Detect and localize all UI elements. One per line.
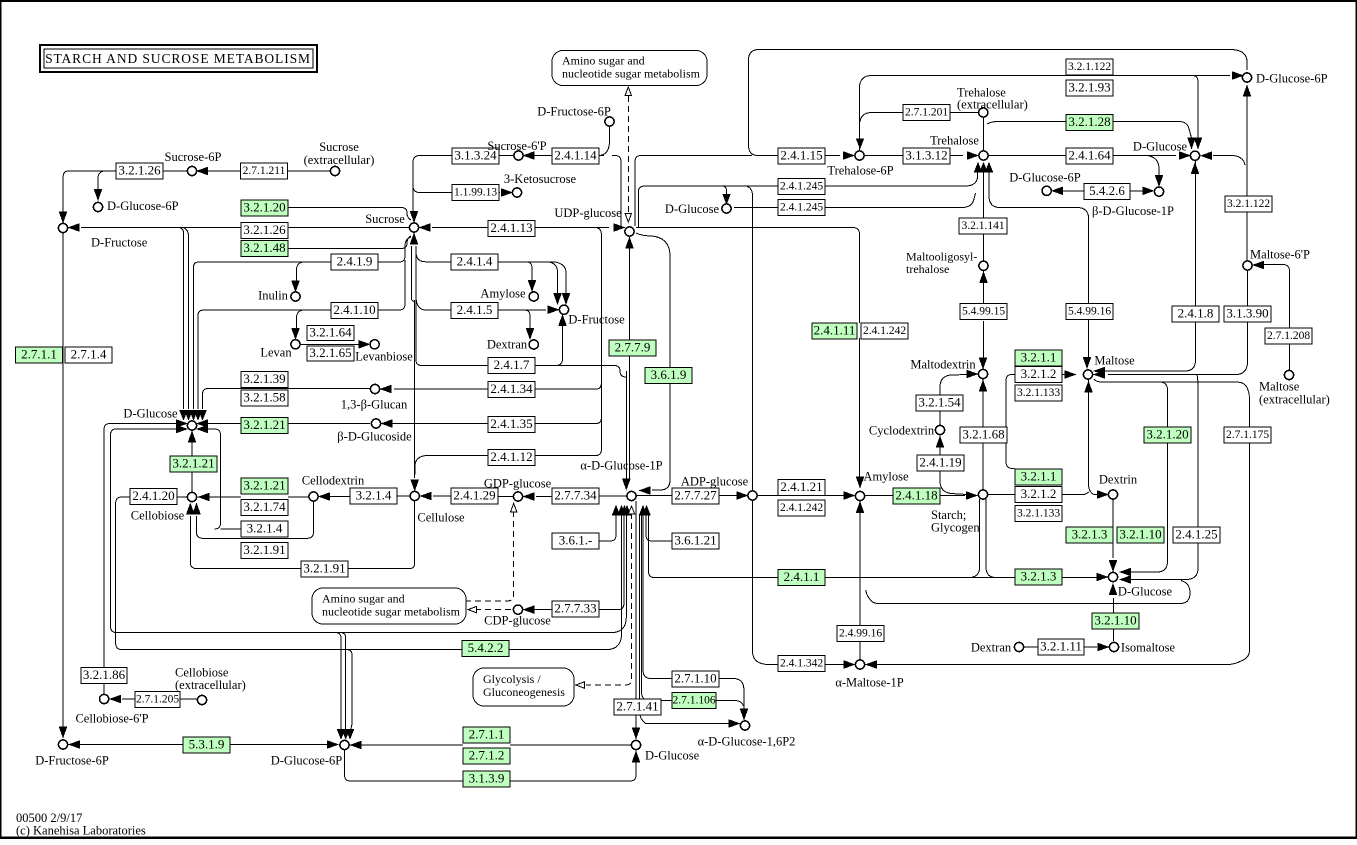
label amino sugar text mid	[322, 592, 461, 619]
arrowhead into D-Fructose from top	[59, 212, 66, 222]
arrowhead into Maltose-6'P	[1254, 261, 1264, 268]
enzyme box 2.4.99.16	[837, 626, 884, 642]
svg-text:5.4.2.6: 5.4.2.6	[1089, 183, 1125, 198]
wire v x635 UDP right	[635, 156, 752, 227]
enzyme box 2.7.1.205	[135, 692, 180, 708]
enzyme box 3.2.1.91 a	[241, 542, 288, 559]
svg-text:α-D-Glucose-1P: α-D-Glucose-1P	[580, 459, 662, 473]
svg-text:3.2.1.10: 3.2.1.10	[1094, 612, 1136, 627]
wire h 2.7.1.205 row y699	[122, 698, 197, 700]
svg-text:3.2.1.39: 3.2.1.39	[243, 371, 285, 386]
wire v amylose2 to a-maltose-1P	[859, 514, 861, 659]
arrowhead into GDP-glucose	[524, 493, 534, 500]
wire h maltose row y374.5	[1010, 371, 1236, 375]
wire h 2.4.1.245 row2 y207.5	[734, 193, 976, 208]
arrowhead into Maltodextrin bottom	[979, 381, 986, 391]
svg-text:3.2.1.58: 3.2.1.58	[243, 389, 285, 404]
svg-text:D-Glucose: D-Glucose	[123, 407, 178, 421]
metabolite node D-Glucose right	[1190, 151, 1199, 160]
metabolite node Sucrose-6'P	[514, 151, 523, 160]
svg-text:3.2.1.141: 3.2.1.141	[961, 220, 1004, 232]
wire h 2.4.1.12 y455.5	[426, 449, 601, 456]
arrowhead into Maltose right2	[1095, 371, 1105, 378]
wire h 3.2.1.48 right to sucrose bottom	[288, 236, 411, 249]
wire v trehalose-6P up x859.5 and y75.5 line	[860, 76, 1231, 151]
svg-text:2.4.1.25: 2.4.1.25	[1175, 526, 1217, 541]
arrowhead into D-Glucose-6P BL top2	[342, 730, 349, 739]
enzyme box 3.6.1.21	[672, 532, 719, 549]
svg-text:Sucrose: Sucrose	[365, 212, 405, 226]
wire curve 2.4.1.14 up to D-Fructose-6P	[598, 127, 610, 156]
svg-text:3.2.1.11: 3.2.1.11	[1040, 638, 1082, 653]
enzyme box 2.7.1.175	[1224, 427, 1271, 443]
svg-text:ADP-glucose: ADP-glucose	[681, 475, 749, 489]
arrowhead into D-Fructose-6P bottom top	[59, 727, 66, 737]
wire h 2.4.1.9 row y262	[199, 261, 399, 263]
arrowhead into D-Glucose hubR bottom	[1109, 585, 1116, 595]
svg-text:3.2.1.68: 3.2.1.68	[962, 426, 1004, 441]
wire maltose right curve from x1247.5	[1236, 270, 1248, 375]
svg-text:2.7.1.201: 2.7.1.201	[905, 107, 948, 119]
arrowhead open triangle above UDP-glucose	[625, 214, 631, 223]
label Dextran top	[487, 338, 528, 352]
wire v cellobiose-6P col x104.1	[103, 667, 105, 694]
label Sucrose	[365, 212, 405, 226]
svg-text:2.4.1.245: 2.4.1.245	[780, 181, 823, 193]
svg-text:Sucrose-6P: Sucrose-6P	[165, 150, 222, 164]
svg-text:Maltose: Maltose	[1094, 354, 1135, 368]
wire h sucrose main y227.5	[81, 227, 853, 229]
arrowhead into D-Glucose top-mid	[723, 195, 730, 204]
wire hub left curve x110.5 down to y632.5	[111, 429, 177, 633]
arrowhead into D-Glucose hub right2	[198, 425, 208, 432]
svg-text:2.7.7.9: 2.7.7.9	[615, 339, 651, 354]
wire branch down to Dextran1	[524, 310, 530, 330]
enzyme box 2.7.7.34	[552, 487, 599, 504]
arrowhead into Cellobiose-6'P	[111, 695, 121, 702]
label Cyclodextrin	[869, 424, 935, 438]
arrowhead into alpha-D-Glucose-1P top	[623, 479, 630, 489]
label Amylose top	[480, 287, 526, 301]
arrowhead into Cyclodextrin	[936, 437, 943, 447]
arrowhead into D-Fructose mid top1	[554, 294, 561, 304]
wire h 1,3-b-glucan row y388.5	[203, 389, 371, 395]
enzyme box 3.2.1.133 a	[1015, 385, 1062, 401]
arrowhead into D-Glucose hubR top	[1109, 561, 1116, 571]
svg-text:2.4.1.4: 2.4.1.4	[457, 253, 493, 268]
wire v x636 through 2.7.1.41	[635, 501, 637, 729]
enzyme box 2.4.1.242 a	[861, 323, 908, 339]
wire trehalose arrow3 to 5.4.99.16 col	[989, 172, 1089, 358]
wire branch down to Amylose1	[526, 262, 532, 281]
arrowhead into D-Glucose-6P BL right side	[351, 741, 361, 748]
wire curve y227.5 down into left bundle	[178, 228, 184, 410]
arrowhead into D-Fructose mid top2	[562, 294, 569, 304]
wire h 1.1.99.13 row y192.5	[420, 192, 500, 194]
enzyme box 3.2.1.20 a	[241, 199, 288, 216]
metabolite node D-Glucose-6P top-right	[1242, 73, 1251, 82]
metabolite node ADP-glucose	[748, 491, 757, 500]
svg-text:2.4.1.19: 2.4.1.19	[919, 454, 961, 469]
svg-text:3.2.1.48: 3.2.1.48	[243, 240, 285, 255]
metabolite node Starch; Glycogen	[978, 490, 987, 499]
svg-text:2.7.1.175: 2.7.1.175	[1226, 429, 1269, 441]
svg-text:(extracellular): (extracellular)	[304, 153, 375, 167]
enzyme box 2.4.1.15	[778, 147, 825, 164]
enzyme box 2.4.1.245 b	[778, 200, 825, 216]
label D-Fructose mid	[568, 313, 625, 327]
svg-text:2.4.1.1: 2.4.1.1	[784, 569, 820, 584]
wire v bundle x202.5 from glucan row	[202, 393, 204, 409]
wire h 2.4.1.18 row y495	[637, 495, 965, 497]
arrowhead into Starch	[967, 492, 977, 499]
enzyme box 2.4.1.34	[488, 381, 535, 398]
metabolite node Cellodextrin	[309, 492, 318, 501]
arrowhead into D-Glucose hubR right1	[1121, 568, 1131, 575]
svg-text:(extracellular): (extracellular)	[1259, 393, 1330, 407]
svg-text:3.2.1.74: 3.2.1.74	[243, 499, 286, 514]
pathway link box Amino sugar and nucleotide sugar metabolism (top)	[552, 51, 707, 86]
svg-text:(extracellular): (extracellular)	[175, 678, 246, 692]
enzyme box 3.2.1.2 b	[1015, 486, 1062, 503]
svg-text:nucleotide sugar metabolism: nucleotide sugar metabolism	[562, 67, 701, 81]
wire h 3.2.1.28 row y121.6	[987, 122, 1192, 138]
svg-text:3.2.1.21: 3.2.1.21	[243, 477, 285, 492]
svg-text:Dextran: Dextran	[487, 338, 528, 352]
svg-text:D-Glucose-6P: D-Glucose-6P	[1009, 171, 1081, 185]
wire curve 2.4.1.9 up to sucrose	[399, 237, 411, 262]
wire branch down to D-Glucose-6P TL	[98, 171, 104, 190]
arrowhead into ADP-glucose	[737, 492, 747, 499]
wire big loop 2.4.1.15 left to D-Glucose-6P TR	[749, 50, 1248, 156]
metabolite node Isomaltose	[1109, 642, 1118, 651]
enzyme box 2.7.1.1 b	[463, 726, 510, 743]
wire curve 2.7.1.201 left down	[860, 113, 903, 123]
arrowhead into D-Glucose hub right1	[198, 420, 208, 427]
svg-text:3.2.1.86: 3.2.1.86	[83, 667, 126, 682]
arrowhead into Maltodextrin left	[967, 370, 977, 377]
svg-text:2.7.1.41: 2.7.1.41	[616, 698, 658, 713]
svg-text:3.2.1.3: 3.2.1.3	[1021, 568, 1057, 583]
enzyme box 2.4.1.245 a	[778, 179, 825, 195]
enzyme box 3.2.1.48	[241, 240, 288, 257]
wire v x639.5 to a-D-glucose-1,6P2	[640, 514, 730, 724]
enzyme box 3.2.1.3 a	[1066, 526, 1113, 543]
arrowhead into D-Glucose bottom top	[632, 728, 639, 738]
wire hub right y429 to 3.2.1.4 row	[198, 429, 241, 529]
label alpha-D-Glucose-1,6P2	[698, 735, 796, 749]
svg-text:Maltodextrin: Maltodextrin	[910, 358, 976, 372]
svg-text:Sucrose-6'P: Sucrose-6'P	[487, 139, 546, 153]
arrowhead into D-Glucose R top1	[1188, 138, 1195, 148]
svg-text:3.1.3.9: 3.1.3.9	[469, 770, 505, 785]
svg-text:3.2.1.4: 3.2.1.4	[356, 487, 392, 502]
label Trehalose (extracellular)	[957, 86, 1028, 112]
label Cellulose	[417, 511, 465, 525]
enzyme box 5.4.99.16	[1066, 304, 1113, 320]
wire h D-Fructose-6P row y744.5	[69, 744, 331, 746]
svg-text:D-Fructose-6P: D-Fructose-6P	[537, 105, 611, 119]
svg-text:3.6.1.21: 3.6.1.21	[674, 532, 716, 547]
arrowhead into Maltooligosyltrehalose	[980, 273, 987, 283]
wire v x621 UDP left	[612, 156, 621, 227]
label Inulin	[258, 289, 289, 303]
label Levan	[260, 346, 292, 360]
svg-text:2.7.1.211: 2.7.1.211	[243, 165, 286, 177]
svg-text:3.1.3.90: 3.1.3.90	[1226, 305, 1268, 320]
svg-text:3.2.1.26: 3.2.1.26	[243, 222, 286, 237]
arrowhead into D-Glucose hub left1	[177, 420, 187, 427]
metabolite node Maltooligosyltrehalose	[979, 261, 988, 270]
svg-text:Amylose: Amylose	[863, 470, 909, 484]
wire v x1195.5 D-Glucose R down 2.4.1.8	[1176, 161, 1196, 371]
wire v bundle x193.5 from 2.4.1.9 row	[194, 262, 200, 409]
metabolite node D-Fructose left	[58, 223, 67, 232]
wire h isomaltose row y647	[1024, 646, 1097, 648]
enzyme box 3.2.1.74	[241, 499, 288, 516]
arrowhead into D-Glucose R right	[1202, 152, 1212, 159]
arrowhead into D-Glucose R top2	[1194, 138, 1201, 148]
svg-text:3.2.1.122: 3.2.1.122	[1227, 198, 1270, 210]
arrowhead open triangle below GDP-glucose	[511, 504, 517, 513]
wire h 2.4.1.245 row1 y186	[638, 172, 977, 227]
label alpha-D-Glucose-1P	[580, 459, 662, 473]
wire curve left of 3.2.1.26 down to D-Fructose	[63, 171, 68, 214]
arrowhead open triangle into amino box mid	[468, 606, 477, 612]
label D-Glucose top-mid	[665, 202, 720, 216]
arrowhead into D-Glucose-6P mid	[1053, 187, 1063, 194]
enzyme box 2.4.1.1	[778, 569, 825, 586]
arrowhead bundle up arrow x626.3	[623, 506, 630, 515]
label UDP-glucose	[554, 206, 622, 220]
svg-text:3.2.1.64: 3.2.1.64	[309, 324, 352, 339]
arrowhead into Maltose bottom	[1085, 382, 1092, 392]
arrowhead into D-Fructose mid left	[548, 306, 558, 313]
svg-text:2.7.1.4: 2.7.1.4	[71, 346, 107, 361]
enzyme box 2.4.1.18	[893, 487, 940, 504]
svg-text:2.4.1.245: 2.4.1.245	[780, 202, 823, 214]
wire v x1198 2.4.1.25 hub feed	[1126, 375, 1198, 580]
label beta-D-Glucose-1P	[1092, 204, 1174, 218]
svg-text:3.2.1.28: 3.2.1.28	[1068, 114, 1110, 129]
arrowhead into Amylose mid bottom	[856, 503, 863, 513]
svg-text:Amino sugar and: Amino sugar and	[562, 54, 645, 68]
enzyme box 3.2.1.39	[241, 371, 288, 388]
svg-text:Gluconeogenesis: Gluconeogenesis	[483, 685, 565, 699]
svg-text:3.2.1.4: 3.2.1.4	[247, 520, 283, 535]
wire bundle x646 to 3.6.1.21	[646, 514, 672, 541]
wire dashed GDP down	[466, 511, 514, 601]
wire h alpha-maltose-1P left segments	[768, 664, 845, 666]
wire bundle x643 to 2.7.1.10 row	[643, 514, 672, 679]
enzyme box 3.1.3.9	[463, 770, 510, 787]
wire v dextrin to D-Glucose R hub	[1112, 499, 1114, 558]
svg-text:Maltose-6'P: Maltose-6'P	[1250, 248, 1310, 262]
arrowhead into Levanbiose	[359, 341, 369, 348]
svg-text:2.4.1.18: 2.4.1.18	[895, 487, 937, 502]
metabolite node Maltose	[1083, 370, 1092, 379]
arrowhead into D-Glucose hub top 1	[180, 411, 187, 420]
metabolite node D-Fructose-6P bottom	[58, 740, 67, 749]
arrowhead into D-Glucose-6P TL	[94, 190, 101, 200]
enzyme box 2.4.1.7	[488, 357, 535, 374]
arrowhead into beta-D-Glucoside	[382, 420, 392, 427]
label D-Glucose right hub	[1118, 585, 1173, 599]
svg-text:3.2.1.91: 3.2.1.91	[303, 560, 345, 575]
wire dashed bundle to glycolysis	[586, 513, 632, 685]
wire bundle x624 to 2.7.7.33	[598, 514, 624, 610]
arrowhead into D-Glucose R left	[1180, 152, 1190, 159]
label 1,3-beta-Glucan	[341, 398, 408, 412]
wire bundle x621.5 (to y649.5)	[621, 514, 623, 633]
wire dashed UDP to amino sugar box	[627, 96, 629, 213]
arrowhead into Cellulose left	[421, 492, 431, 499]
enzyme box 2.7.7.27	[672, 487, 719, 504]
enzyme box 3.2.1.4 a	[241, 520, 288, 537]
wire h cellobiose row y497	[177, 495, 410, 498]
svg-text:3.2.1.122: 3.2.1.122	[1068, 61, 1111, 73]
arrowhead into alpha-Maltose-1P right	[867, 661, 877, 668]
svg-text:3.2.1.133: 3.2.1.133	[1017, 508, 1060, 520]
svg-text:5.4.99.16: 5.4.99.16	[1068, 306, 1111, 318]
metabolite node 1,3-beta-Glucan	[370, 384, 379, 393]
svg-text:3.2.1.133: 3.2.1.133	[1017, 387, 1060, 399]
arrowhead into D-Glucose hubR right2	[1121, 576, 1131, 583]
wire h 3.2.1.20 right to sucrose top	[288, 208, 411, 221]
svg-text:D-Glucose: D-Glucose	[1118, 585, 1173, 599]
svg-text:5.4.2.2: 5.4.2.2	[468, 640, 504, 655]
svg-text:D-Glucose-6P: D-Glucose-6P	[271, 754, 343, 768]
svg-text:2.4.1.35: 2.4.1.35	[490, 416, 532, 431]
wire v cellulose down	[410, 501, 415, 569]
enzyme box 2.4.1.4	[451, 253, 498, 270]
wire branch y649.5 down to DG6P-L	[346, 650, 352, 732]
svg-text:3.1.3.12: 3.1.3.12	[905, 147, 947, 162]
svg-text:2.4.1.21: 2.4.1.21	[780, 479, 822, 494]
wire v DG hub R to 3.2.1.10#2 isomaltose	[1112, 584, 1115, 641]
metabolite node D-Fructose mid	[559, 305, 568, 314]
svg-text:2.7.7.34: 2.7.7.34	[554, 487, 597, 502]
label Sucrose-6P	[165, 150, 222, 164]
arrowhead into beta-D-Glucose-1P top	[1155, 176, 1162, 186]
arrowhead into Maltose left	[1065, 371, 1075, 378]
svg-text:3.2.1.2: 3.2.1.2	[1021, 366, 1057, 381]
label Maltooligosyltrehalose	[906, 250, 977, 277]
svg-text:Trehalose: Trehalose	[930, 134, 979, 148]
label D-Glucose bottom	[645, 749, 700, 763]
arrowhead bundle up arrow x616	[612, 506, 619, 515]
svg-text:Cyclodextrin: Cyclodextrin	[869, 424, 935, 438]
metabolite node Maltose (extracellular)	[1284, 370, 1293, 379]
arrowhead into Trehalose-6P from top	[857, 139, 864, 148]
label Cellobiose (extracellular)	[175, 666, 246, 693]
wire bundle x641.5 to 2.7.1.106 row	[642, 514, 673, 701]
arrowhead into Trehalose bottom3	[985, 163, 992, 172]
label Cellodextrin	[302, 474, 365, 488]
enzyme box 3.2.1.26 a	[116, 162, 163, 179]
svg-text:Levan: Levan	[260, 346, 292, 360]
enzyme box 3.6.1.9	[645, 367, 692, 384]
svg-text:D-Glucose-6P: D-Glucose-6P	[107, 199, 179, 213]
metabolite node Trehalose (extracellular)	[979, 108, 988, 117]
svg-text:2.4.99.16: 2.4.99.16	[839, 628, 882, 640]
arrowhead into Sucrose bottom	[410, 234, 417, 244]
arrowhead bundle up arrow x624	[621, 506, 628, 515]
svg-text:2.4.1.13: 2.4.1.13	[490, 220, 532, 235]
wire v hub down through 3.2.1.21gB to cellobiose	[191, 437, 193, 492]
wire h Levan to Levanbiose y344.3	[301, 343, 360, 345]
wire v cyclodextrin 2.4.1.19	[940, 437, 967, 495]
wire v x1198 from y75.5 to D-Glucose R	[1192, 76, 1198, 139]
enzyme box 5.4.99.15	[960, 304, 1007, 320]
metabolite node Cellulose	[410, 491, 419, 500]
enzyme box 2.7.1.2	[463, 747, 510, 764]
enzyme box 3.2.1.4 b	[350, 487, 397, 504]
svg-text:3.6.1.-: 3.6.1.-	[559, 532, 593, 547]
svg-text:nucleotide sugar metabolism: nucleotide sugar metabolism	[322, 605, 461, 619]
arrowhead into Sucrose-6'P	[524, 152, 534, 159]
svg-text:2.7.1.2: 2.7.1.2	[469, 747, 505, 762]
enzyme box 3.2.1.28	[1066, 114, 1113, 131]
metabolite node Trehalose-6P	[855, 151, 864, 160]
svg-text:3.2.1.26: 3.2.1.26	[118, 162, 161, 177]
wire curve 2.4.1.4 row from sucrose	[416, 252, 488, 262]
arrowhead open triangle to amino sugar box top	[625, 87, 631, 96]
svg-text:UDP-glucose: UDP-glucose	[554, 206, 622, 220]
label Levanbiose	[355, 350, 413, 364]
arrowhead into D-Glucose hub top 2	[185, 411, 192, 420]
label Sucrose-6'P	[487, 139, 546, 153]
enzyme box 2.4.1.342	[778, 656, 825, 672]
arrowhead into Amylose top	[528, 281, 535, 291]
arrowhead into D-Glucose-6P TR left	[1233, 72, 1243, 79]
metabolite node D-Glucose-6P top-left	[93, 202, 102, 211]
label Starch; Glycogen	[931, 508, 980, 535]
wire cellodextrin down loop y538.3	[197, 501, 314, 538]
svg-text:3.2.1.21: 3.2.1.21	[172, 455, 214, 470]
wire h 2.4.1.7 y365.5	[535, 365, 614, 367]
enzyme box 2.7.1.1 a	[16, 346, 63, 363]
svg-text:D-Glucose: D-Glucose	[665, 202, 720, 216]
wire h 2.7.1.10 right to 1,6P2	[716, 679, 744, 711]
svg-text:Maltose: Maltose	[1259, 380, 1300, 394]
label Trehalose mid	[930, 134, 979, 148]
arrowhead into Cellobiose bottom2	[193, 504, 200, 514]
wire hub left curve x104 down (3.2.1.86 col)	[104, 424, 176, 668]
svg-text:2.7.1.1: 2.7.1.1	[469, 726, 505, 741]
svg-text:2.7.1.208: 2.7.1.208	[1267, 330, 1310, 342]
arrowhead into Cellobiose right	[199, 493, 209, 500]
wire v 2.4.1.12 down to cellulose	[415, 456, 426, 479]
wire curve 1.1.99.13 left up	[413, 186, 420, 193]
arrowhead bundle up arrow x643	[639, 506, 646, 515]
svg-text:2.4.1.34: 2.4.1.34	[490, 381, 533, 396]
metabolite node UDP-glucose	[625, 227, 634, 236]
svg-text:Amylose: Amylose	[480, 287, 526, 301]
arrowhead into D-Glucose hub bottom	[188, 432, 195, 442]
enzyme box 3.2.1.21 c	[241, 477, 288, 494]
wire h 2.4.1.4 right y261.8	[498, 261, 554, 263]
enzyme box 2.7.7.9	[609, 339, 656, 356]
enzyme box 2.4.1.9	[331, 253, 378, 270]
metabolite node alpha-D-Glucose-1P	[627, 491, 636, 500]
enzyme box 3.2.1.91 b	[301, 560, 348, 577]
arrowhead into UDP-glucose from below	[626, 238, 633, 248]
svg-text:(extracellular): (extracellular)	[957, 98, 1028, 112]
enzyme box 3.2.1.58	[241, 389, 288, 406]
enzyme box 3.2.1.10 b	[1092, 612, 1139, 629]
wire h 2.4.1.10 row y310	[204, 309, 399, 311]
